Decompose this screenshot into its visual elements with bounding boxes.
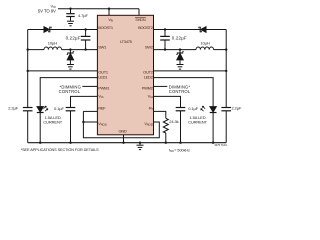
svg-text:*SEE APPLICATIONS SECTION FOR: *SEE APPLICATIONS SECTION FOR DETAILS: [21, 148, 99, 152]
capacitor CIN 4.7uF: [70, 9, 72, 14]
junction CB1 on SW1: [84, 48, 86, 50]
junction CB2 on BOOST2: [164, 28, 166, 30]
svg-text:SW2: SW2: [145, 44, 154, 49]
svg-text:10µH: 10µH: [200, 40, 209, 45]
svg-text:CURRENT: CURRENT: [188, 120, 208, 125]
svg-text:CONTROL: CONTROL: [169, 89, 191, 94]
svg-text:VADJ1: VADJ1: [98, 121, 107, 127]
junction VIN stub on rail: [108, 8, 110, 10]
wire VC1: [71, 96, 98, 107]
svg-text:24.3k: 24.3k: [169, 119, 178, 124]
wire PWM2: [154, 85, 168, 87]
capacitor CB2 0.22uF: [164, 30, 166, 37]
wire ground bus: [28, 142, 227, 144]
svg-text:0.22µF: 0.22µF: [172, 35, 187, 40]
junction CC2 on bus: [179, 142, 181, 144]
wire LED2 row: [154, 78, 214, 107]
diode D3 catch schottky ch1: [69, 50, 71, 53]
wire REF: [83, 110, 97, 112]
node OUT2 right rail: [225, 30, 227, 108]
junction D3 on SW1: [69, 48, 71, 50]
LED D2: [210, 107, 216, 112]
junction D2 on bus: [212, 142, 214, 144]
junction L1 on OUT1 rail: [27, 48, 29, 50]
wire VIN pin stub: [108, 9, 110, 16]
diode D5 boost ch1: [44, 27, 49, 33]
outside labels: [8, 3, 242, 124]
wire GND stub: [123, 135, 125, 143]
junction OUT1 wire on rail: [27, 70, 29, 72]
junction OUT2 wire on rail: [225, 70, 227, 72]
wire BOOST2 row: [154, 29, 227, 31]
wire REF VADJ tie: [83, 111, 159, 137]
svg-text:LT3475: LT3475: [120, 39, 133, 44]
svg-text:LED1: LED1: [98, 74, 108, 79]
svg-text:CURRENT: CURRENT: [43, 120, 63, 125]
resistor RT 24.3k: [163, 118, 168, 133]
inductor L2 10uH: [196, 47, 214, 50]
diode D6 boost ch2: [201, 27, 206, 33]
svg-text:GND: GND: [118, 129, 126, 134]
wire VC2: [154, 96, 181, 107]
svg-text:10µH: 10µH: [48, 40, 57, 45]
svg-text:4.7µF: 4.7µF: [78, 13, 88, 18]
pin labels: [98, 17, 153, 134]
junction RT resistor on bus: [165, 142, 167, 144]
ground at CIN: [67, 20, 74, 22]
junction VADJ1 on tie: [82, 121, 84, 123]
junction CC1 on bus: [69, 142, 71, 144]
svg-text:0.22µF: 0.22µF: [66, 35, 81, 40]
capacitor CC2 0.1uF: [176, 107, 186, 109]
capacitor CC1 0.1uF: [66, 107, 76, 109]
wire VADJ1: [83, 121, 97, 123]
junction ground symbol on bus: [139, 142, 141, 144]
svg-text:5V TO 9V: 5V TO 9V: [38, 9, 56, 14]
svg-text:PWM2: PWM2: [142, 86, 154, 91]
wire LED1 row: [40, 78, 97, 107]
junction L2 on OUT2 rail: [225, 48, 227, 50]
svg-text:2.2µF: 2.2µF: [232, 105, 242, 110]
diode D4 catch schottky ch2: [179, 50, 181, 53]
wire OUT2 row: [154, 70, 227, 72]
LED D1 arrows: [43, 106, 46, 109]
svg-text:BOOST1: BOOST1: [98, 25, 114, 30]
wire SW1 row: [28, 49, 44, 51]
svg-text:3475 TA01: 3475 TA01: [214, 143, 227, 147]
node OUT1 left rail: [27, 30, 29, 108]
wire SHDN pin stub: [138, 9, 140, 16]
wire VIN rail: [58, 8, 139, 10]
wire BOOST1 row: [28, 29, 98, 31]
wire SW2 row: [154, 49, 197, 51]
svg-text:PWM1: PWM1: [98, 86, 110, 91]
wire RT: [154, 111, 166, 118]
wire OUT1 row: [28, 70, 98, 72]
LED D2 arrows: [202, 106, 205, 109]
junction D1 on bus: [39, 142, 41, 144]
IC U1 LT3475: [97, 15, 153, 135]
svg-text:0.1µF: 0.1µF: [54, 106, 64, 111]
svg-text:SW1: SW1: [98, 44, 107, 49]
svg-text:REF: REF: [98, 106, 106, 111]
svg-text:0.1µF: 0.1µF: [188, 106, 198, 111]
inductor L1 10uH: [44, 47, 62, 50]
svg-text:BOOST2: BOOST2: [138, 25, 154, 30]
svg-text:LED2: LED2: [144, 74, 154, 79]
svg-text:CONTROL: CONTROL: [59, 89, 81, 94]
capacitor CB1 0.22uF: [85, 30, 87, 37]
ground symbol mid: [139, 143, 141, 145]
LED D1: [37, 107, 43, 112]
junction CB1 on BOOST1: [84, 28, 86, 30]
svg-text:SHDN: SHDN: [135, 18, 145, 22]
junction D4 on SW2: [179, 48, 181, 50]
junction GND stub on bus: [122, 142, 124, 144]
capacitor COUT1 2.2uF: [23, 107, 33, 109]
svg-text:VADJ2: VADJ2: [144, 121, 153, 127]
capacitor COUT2 2.2uF: [221, 107, 231, 109]
junction CB2 on SW2: [164, 48, 166, 50]
wire PWM1: [82, 85, 97, 87]
svg-text:2.2µF: 2.2µF: [8, 105, 18, 110]
junction CIN on VIN rail: [69, 8, 71, 10]
svg-text:fSW= 500kHz: fSW= 500kHz: [169, 148, 190, 153]
